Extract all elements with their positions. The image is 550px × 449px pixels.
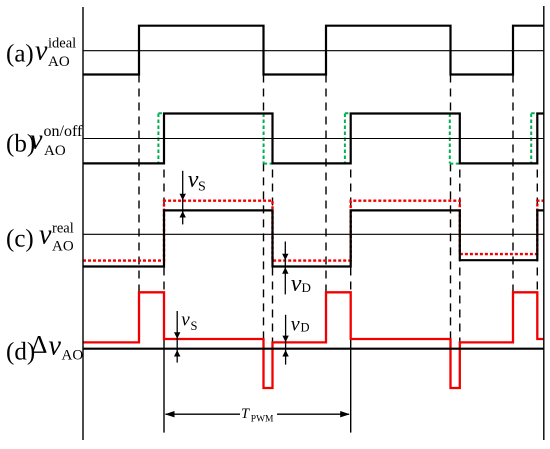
node vS arrow panel d down [174, 311, 180, 363]
svg-text:real: real [52, 220, 74, 236]
svg-text:AO: AO [62, 348, 84, 364]
label (b) v_AO^on/off [6, 123, 83, 159]
svg-text:ideal: ideal [48, 35, 76, 51]
svg-text:D: D [301, 321, 310, 335]
node waveform b on/off square wave [83, 114, 544, 164]
wire TPWM left boundary solid [163, 336, 165, 433]
node t4 ideal-fall dashed line [450, 75, 452, 340]
svg-text:v: v [35, 36, 48, 67]
svg-text:v: v [39, 220, 52, 251]
svg-text:v: v [49, 331, 62, 362]
green dashed gate fall 1 [264, 114, 273, 164]
wire zero line panel b [83, 138, 544, 140]
wire TPWM right boundary solid [350, 336, 352, 433]
node t5 ideal-rise dashed line [512, 75, 514, 294]
label (d) delta v_AO [6, 330, 83, 366]
node t1 ideal-rise dashed line [138, 75, 140, 294]
green dashed gate fall 2 [450, 114, 460, 164]
wire vertical axis [82, 7, 84, 440]
node s2 actual-fall dashed line [272, 114, 274, 343]
node vD arrow panel c up [282, 267, 288, 274]
svg-text:S: S [191, 319, 198, 333]
svg-text:D: D [302, 280, 311, 295]
node waveform c red dashed reference [83, 201, 544, 261]
node s3 actual-rise dashed line [350, 114, 352, 340]
green dashed gate rise 3 [531, 113, 537, 163]
node t2 ideal-fall dashed line [263, 75, 265, 340]
node s4 actual-fall dashed line [459, 114, 461, 343]
node vS arrow panel d up [174, 350, 180, 357]
node vS arrow panel c down [180, 171, 186, 225]
node vD arrow panel d up [282, 350, 288, 357]
wire zero line panel a [83, 50, 544, 52]
label (a) v_AO^ideal [6, 35, 76, 70]
node waveform d delta-v red trace [83, 292, 544, 388]
node s5 actual-rise dashed line [536, 114, 538, 294]
svg-text:PWM: PWM [251, 415, 274, 425]
svg-text:AO: AO [52, 238, 74, 254]
node vD arrow panel c down [282, 242, 288, 295]
node TPWM dimension arrow [165, 411, 350, 417]
wire right border [543, 6, 545, 440]
svg-text:on/off: on/off [44, 123, 83, 140]
green dashed gate rise 1 [158, 113, 164, 163]
svg-text:T: T [241, 406, 250, 422]
svg-text:AO: AO [48, 54, 70, 70]
node s1 actual-rise dashed line [163, 114, 165, 340]
node vS arrow panel c up [180, 211, 186, 218]
node waveform c real square wave [83, 210, 544, 266]
svg-text:AO: AO [44, 143, 66, 159]
svg-text:v: v [30, 124, 43, 155]
svg-text:v: v [291, 271, 302, 297]
svg-text:(c): (c) [6, 226, 34, 253]
node waveform a ideal square wave [83, 26, 544, 75]
node t3 ideal-rise dashed line [325, 75, 327, 294]
svg-text:v: v [291, 314, 300, 336]
wire zero line panel d [83, 348, 544, 350]
wire zero line panel c [83, 233, 544, 235]
svg-text:Δ: Δ [31, 330, 47, 359]
svg-text:S: S [198, 180, 206, 195]
node vD arrow panel d down [282, 315, 288, 365]
svg-text:v: v [181, 310, 190, 331]
svg-text:(a): (a) [6, 41, 34, 68]
label (c) v_AO^real [6, 220, 74, 255]
green dashed gate rise 2 [345, 113, 351, 163]
